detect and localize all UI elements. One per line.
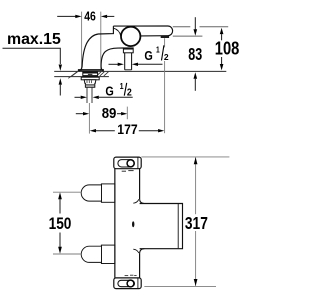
svg-text:max.15: max.15 — [7, 31, 61, 48]
svg-text:83: 83 — [188, 45, 202, 64]
svg-text:108: 108 — [215, 38, 240, 59]
svg-text:150: 150 — [49, 215, 72, 233]
svg-text:G: G — [144, 48, 152, 63]
svg-text:1: 1 — [156, 45, 160, 55]
svg-text:177: 177 — [117, 122, 137, 138]
svg-text:1: 1 — [120, 81, 125, 91]
svg-text:2: 2 — [164, 52, 169, 62]
svg-text:G: G — [105, 83, 113, 98]
svg-text:89: 89 — [102, 104, 117, 121]
svg-text:317: 317 — [185, 215, 208, 234]
svg-text:46: 46 — [84, 10, 96, 24]
svg-text:2: 2 — [127, 87, 132, 98]
